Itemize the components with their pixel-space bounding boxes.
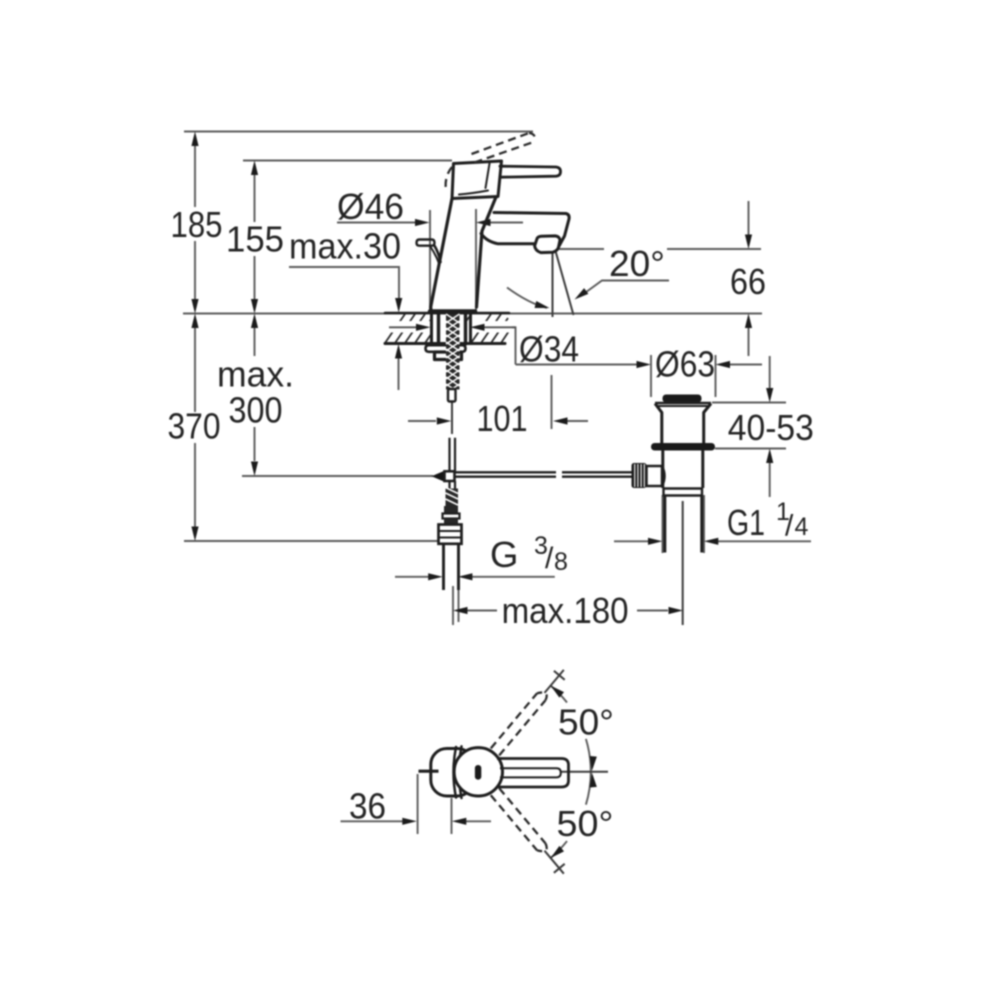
svg-text:66: 66 (730, 261, 766, 302)
svg-text:/: / (545, 542, 554, 575)
svg-text:300: 300 (229, 390, 283, 431)
svg-text:/: / (785, 510, 794, 543)
svg-text:Ø63: Ø63 (655, 344, 715, 385)
svg-text:max.: max. (217, 354, 294, 395)
svg-text:max.30: max.30 (289, 226, 401, 267)
svg-text:155: 155 (226, 219, 284, 260)
svg-text:Ø34: Ø34 (519, 329, 579, 370)
svg-text:50°: 50° (558, 702, 614, 743)
svg-text:8: 8 (554, 548, 568, 576)
svg-text:101: 101 (477, 398, 528, 439)
svg-text:Ø46: Ø46 (337, 186, 404, 227)
svg-text:max.180: max.180 (502, 590, 629, 631)
svg-text:185: 185 (171, 204, 223, 245)
svg-text:G1: G1 (727, 502, 765, 543)
svg-text:20°: 20° (609, 243, 665, 284)
svg-text:40-53: 40-53 (728, 407, 814, 448)
svg-text:G: G (490, 534, 518, 575)
svg-text:370: 370 (168, 406, 221, 447)
svg-text:4: 4 (795, 513, 809, 541)
svg-text:36: 36 (349, 786, 386, 827)
svg-text:50°: 50° (557, 803, 614, 844)
